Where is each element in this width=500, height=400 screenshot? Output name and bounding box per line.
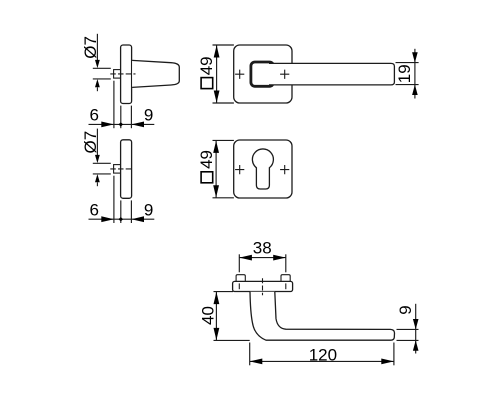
ext line screw left F5 [238, 254, 240, 272]
dimension square-49 F4 [213, 140, 234, 197]
screw tick right F5 [285, 283, 287, 289]
dim line 49 F4 [215, 141, 217, 198]
ext line bar top F3 [396, 62, 419, 64]
dim line 6/9 F1 [89, 123, 155, 125]
arrow up Ø7 F2 [95, 174, 100, 182]
handle neck cap F3 [251, 62, 274, 86]
ext line bottom F4 [213, 197, 234, 199]
handle neck cone F1 [132, 60, 179, 87]
dim line 9 lower F5 [415, 340, 417, 353]
dimension 40 F5 [214, 292, 250, 341]
ext line grip right F5 [393, 343, 395, 366]
diamond node F2 [119, 217, 124, 221]
dim line Ø7 F1 [96, 34, 98, 61]
screw left F5 [236, 275, 245, 282]
ext line rosette left F2 [120, 200, 122, 223]
arrow left 9 F2 [131, 216, 144, 222]
svg-text:6: 6 [89, 106, 98, 125]
arrow left 120 F5 [250, 359, 263, 365]
dimension 6/9 F2 [89, 176, 155, 223]
ext line grip top F5 [397, 328, 419, 330]
diamond node F1 [119, 122, 124, 126]
svg-text:49: 49 [197, 56, 216, 75]
square symbol F3 [201, 78, 213, 89]
spindle centerline F1 [110, 73, 135, 75]
ext line rosette right F2 [130, 200, 132, 223]
arrow up 49 F4 [213, 141, 219, 153]
dim line 49 F3 [216, 45, 218, 102]
dim line 120 F5 [250, 360, 394, 362]
ext line screw right F5 [285, 254, 287, 272]
ext line grip bottom F5 [214, 339, 250, 341]
handle outline F5 [250, 292, 395, 340]
dim line 38 F5 [239, 257, 285, 259]
tick bottom Ø7 F1 [93, 78, 111, 80]
svg-text:6: 6 [89, 201, 98, 220]
screw cross right F3 [280, 70, 289, 79]
svg-text:9: 9 [396, 305, 415, 314]
arrow up 19 F3 [412, 85, 418, 95]
spindle stub F2 [114, 165, 121, 174]
tick top Ø7 F2 [93, 162, 111, 164]
arrow up Ø7 F1 [95, 79, 100, 87]
ext line grip bottom right F5 [397, 339, 419, 341]
arrow right 120 F5 [381, 359, 394, 365]
tick bottom Ø7 F2 [93, 173, 111, 175]
dim line 19 F3 [414, 49, 416, 99]
svg-text:9: 9 [144, 106, 153, 125]
plate F5 [233, 281, 293, 291]
ext line spindle end F1 [113, 81, 115, 129]
svg-text:Ø7: Ø7 [81, 131, 100, 154]
arrow up 40 F5 [214, 292, 220, 304]
arrow right 6 F2 [101, 216, 114, 222]
euro cylinder keyhole F4 [252, 149, 273, 189]
screw cross left F3 [235, 70, 244, 79]
square rosette F3 [234, 45, 292, 103]
svg-text:49: 49 [197, 150, 216, 169]
dimension 120 F5 [250, 343, 394, 366]
dim line 9 upper F5 [415, 304, 417, 341]
dimension Ø7 F1 [93, 34, 111, 79]
screw cross left F4 [235, 165, 244, 174]
svg-text:40: 40 [199, 306, 218, 325]
lever bar F3 [269, 63, 394, 85]
ext line top F4 [213, 139, 234, 141]
ext line plate bottom F5 [214, 291, 234, 293]
arrow down Ø7 F1 [95, 60, 100, 68]
screw tick left F5 [238, 283, 240, 289]
arrow down Ø7 F2 [95, 155, 100, 163]
dim line 6/9 F2 [89, 218, 155, 220]
arrow right 38 F5 [273, 255, 286, 261]
rosette side profile F2 [121, 140, 132, 199]
arrow down 49 F3 [214, 91, 220, 103]
arrow down 9 F5 [413, 319, 419, 329]
arrow up 9 F5 [413, 340, 419, 350]
svg-text:38: 38 [253, 238, 272, 257]
svg-text:Ø7: Ø7 [81, 36, 100, 59]
dimension 19 F3 [396, 49, 419, 99]
svg-text:19: 19 [395, 64, 414, 83]
arrow left 38 F5 [239, 255, 252, 261]
dimension 6/9 F1 [89, 81, 155, 129]
ext line spindle end F2 [113, 176, 115, 223]
ext line bar bottom F3 [396, 84, 419, 86]
ext line bottom F3 [213, 102, 234, 104]
arrow down 40 F5 [214, 328, 220, 340]
spindle centerline F2 [110, 168, 133, 170]
square symbol F4 [201, 172, 213, 183]
dimension square-49 F3 [213, 45, 234, 103]
screw cross right F4 [280, 165, 289, 174]
ext line rosette right F1 [130, 106, 132, 129]
arrow right 6 F1 [101, 122, 114, 128]
arrow down 19 F3 [412, 52, 418, 62]
rosette side profile F1 [121, 45, 132, 104]
tick top Ø7 F1 [93, 67, 111, 69]
ext line grip left F5 [249, 343, 251, 366]
dimension 38 F5 [239, 254, 285, 272]
screw right F5 [281, 275, 290, 282]
centerline F5 [262, 278, 264, 295]
dim line Ø7 F2 [96, 129, 98, 156]
arrow down 49 F4 [213, 185, 219, 197]
dim line 40 F5 [215, 292, 217, 340]
stub line below arrow F2 [96, 182, 98, 186]
square rosette F4 [234, 140, 292, 198]
stub line below arrow F1 [96, 87, 98, 91]
svg-text:120: 120 [309, 345, 337, 364]
ext line top F3 [213, 44, 234, 46]
arrow up 49 F3 [214, 45, 220, 57]
dimension Ø7 F2 [93, 129, 111, 174]
svg-text:9: 9 [144, 201, 153, 220]
arrow left 9 F1 [131, 122, 144, 128]
ext line rosette left F1 [120, 106, 122, 129]
spindle stub F1 [114, 70, 121, 79]
dimension 9 F5 [397, 304, 419, 354]
